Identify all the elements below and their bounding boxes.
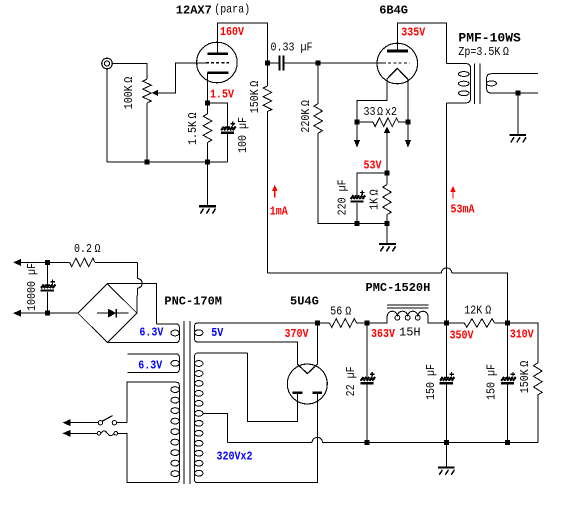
label 363V — [371, 328, 395, 341]
svg-text:320Vx2: 320Vx2 — [217, 451, 253, 464]
svg-text:1.5V: 1.5V — [210, 89, 234, 102]
node pot ground junction — [145, 159, 150, 164]
svg-text:1KΩ: 1KΩ — [369, 189, 382, 210]
svg-text:6B4G: 6B4G — [379, 3, 408, 17]
node rail junction 150uF no1 — [444, 440, 449, 445]
svg-text:(para): (para) — [214, 4, 250, 17]
wire filament left leg — [357, 79, 387, 122]
node filter cap + junction — [45, 260, 50, 265]
label 0.2ohm — [74, 243, 101, 256]
label 12AX7 — [176, 4, 212, 18]
wire 5U4G right plate to HV bottom — [316, 393, 318, 482]
label 1Kohm — [369, 189, 382, 210]
wire 53V to bypass cap — [357, 173, 387, 196]
node coupling cap left — [265, 61, 270, 66]
heater DC + arrow — [13, 259, 47, 266]
heater supply arrow right — [405, 122, 411, 147]
wire 12AX7 plate to coupling node — [217, 23, 267, 63]
label 320Vx2 — [217, 451, 253, 464]
wire HV top to 5U4G plate — [248, 353, 298, 421]
T2 winding 5V — [195, 323, 318, 364]
svg-text:100 µF: 100 µF — [237, 117, 250, 153]
node 350V junction — [444, 321, 449, 326]
resistor R10 150Kohm bleeder — [534, 363, 543, 443]
mains switch SW1 — [98, 416, 116, 425]
resistor R9 12Kohm — [446, 319, 507, 328]
T1 core — [474, 64, 480, 105]
wire OPT primary to 350V node — [446, 103, 448, 323]
label 53mA — [451, 204, 475, 217]
capacitor C4 10000uF — [41, 262, 56, 313]
wire 5U4G filament right to 370V — [316, 323, 318, 364]
T2 core — [184, 321, 190, 484]
wire ground rail with hop — [228, 437, 538, 442]
T1 primary loops — [459, 72, 470, 96]
svg-text:100KΩ: 100KΩ — [123, 76, 136, 109]
node 53V junction — [385, 171, 390, 176]
node cathode net right — [385, 221, 390, 226]
current arrow 53mA — [450, 186, 456, 199]
label 100Kohm — [123, 76, 136, 109]
label 6.3V no1 — [139, 327, 163, 340]
node 363V junction — [365, 321, 370, 326]
T2 winding 6.3V no2 — [127, 354, 179, 373]
label 100uF — [237, 117, 250, 153]
5U4G plate left — [293, 392, 303, 394]
wire filament right leg — [407, 79, 409, 122]
capacitor C7 150uF — [501, 323, 516, 443]
node rail junction 22uF — [365, 440, 370, 445]
svg-text:5U4G: 5U4G — [290, 295, 319, 309]
svg-text:56Ω: 56Ω — [330, 306, 351, 319]
label 6B4G — [379, 3, 408, 17]
fuse F1 — [97, 431, 117, 436]
12AX7 cathode — [208, 71, 229, 73]
HV center tap to ground rail — [203, 413, 228, 442]
T1 secondary — [487, 74, 538, 93]
5U4G plate right — [313, 392, 323, 394]
label 0.33uF — [271, 42, 313, 55]
node filter cap - junction — [45, 311, 50, 316]
label 5V — [211, 327, 223, 340]
hum pot wiper arrow — [384, 127, 390, 173]
label 56ohm — [330, 306, 351, 319]
ground main filter — [438, 443, 455, 475]
svg-text:PMF-10WS: PMF-10WS — [458, 31, 521, 46]
svg-text:350V: 350V — [450, 330, 474, 343]
wire 0.2ohm to bridge + hop — [137, 262, 142, 313]
T2 primary winding — [118, 382, 180, 483]
wire wiper to 12AX7 grid — [158, 63, 206, 93]
label 5U4G — [290, 295, 319, 309]
capacitor C2 0.33uF — [267, 56, 318, 71]
transformer T1 PMF-10WS primary — [447, 64, 471, 103]
T1 secondary loop — [486, 81, 496, 86]
AC input arrow top — [63, 419, 99, 426]
wire amp ground bus — [107, 161, 228, 163]
resistor R2 1.5Kohm — [203, 103, 212, 162]
choke core — [387, 305, 429, 308]
choke L1 PMC-1520H — [367, 311, 446, 323]
svg-text:PMC-1520H: PMC-1520H — [366, 281, 431, 295]
5U4G filament — [298, 364, 318, 373]
label 310V — [510, 329, 534, 342]
svg-text:6.3V: 6.3V — [138, 360, 162, 373]
label Zp=3.5Kohm — [458, 46, 509, 59]
node rail junction 150uF no2 — [505, 440, 510, 445]
node cathode ground junction — [205, 159, 210, 164]
label PMF-10WS — [458, 31, 521, 46]
node grid leak junction — [316, 61, 321, 66]
6B4G plate — [387, 50, 408, 53]
ground OPT secondary — [509, 93, 526, 142]
node 310V junction — [505, 321, 510, 326]
T2 winding 6.3V no1 — [107, 324, 179, 343]
12AX7 plate — [207, 52, 228, 55]
tube U2 6B4G envelope — [377, 43, 418, 84]
label 22uF — [345, 366, 358, 396]
node hum pot right — [406, 120, 411, 125]
node cathode junction — [205, 101, 210, 106]
wire 1mA feed line — [267, 268, 507, 323]
label (para) — [214, 4, 250, 17]
svg-text:220 µF: 220 µF — [337, 179, 350, 215]
resistor R3 150Kohm plate load — [263, 63, 272, 273]
T2 HV winding 320Vx2 — [195, 353, 318, 483]
node secondary ground junction — [515, 91, 520, 96]
svg-text:53V: 53V — [364, 160, 382, 173]
svg-text:12AX7: 12AX7 — [176, 4, 212, 18]
resistor R5 33ohm x2 hum balance — [357, 118, 408, 127]
pot wiper arrow — [152, 90, 158, 96]
wire cathode to bypass cap — [208, 103, 228, 127]
6B4G filament — [387, 68, 408, 79]
wire jack shield to ground bus — [106, 69, 108, 162]
6B4G grid dashed — [383, 62, 410, 64]
svg-text:5V: 5V — [211, 327, 223, 340]
svg-text:22 µF: 22 µF — [345, 366, 358, 396]
tube U3 5U4G envelope — [287, 364, 327, 404]
svg-text:160V: 160V — [220, 26, 244, 39]
resistor R7 0.2ohm — [47, 258, 137, 267]
svg-text:335V: 335V — [401, 27, 425, 40]
svg-text:0.2Ω: 0.2Ω — [74, 243, 101, 256]
label 350V — [450, 330, 474, 343]
node cathode net left — [355, 221, 360, 226]
label 150uF no2 — [486, 364, 499, 400]
wire jack to volume pot top — [113, 64, 147, 80]
svg-text:1.5KΩ: 1.5KΩ — [187, 112, 200, 145]
capacitor C6 150uF — [440, 323, 455, 443]
label 160V — [220, 26, 244, 39]
wire switch to primary — [117, 422, 127, 424]
resistor R4 220Kohm grid leak — [314, 63, 387, 223]
svg-text:370V: 370V — [285, 328, 309, 341]
resistor R6 1Kohm — [383, 173, 392, 223]
current arrow 1mA — [272, 185, 278, 198]
svg-text:0.33 µF: 0.33 µF — [271, 42, 313, 55]
volume pot R1 100Kohm — [143, 79, 152, 162]
svg-text:363V: 363V — [371, 328, 395, 341]
wire to 6B4G grid — [318, 62, 383, 64]
node 370V junction — [315, 321, 320, 326]
svg-text:1mA: 1mA — [270, 206, 288, 219]
svg-text:310V: 310V — [510, 329, 534, 342]
label 1.5V — [210, 89, 234, 102]
capacitor C1 100uF — [221, 122, 236, 162]
label 1.5Kohm — [187, 112, 200, 145]
label 370V — [285, 328, 309, 341]
label 150Kohm — [249, 80, 262, 113]
AC input arrow bottom — [63, 430, 98, 437]
svg-text:53mA: 53mA — [451, 204, 475, 217]
label 220Kohm — [300, 100, 313, 133]
label 53V — [364, 160, 382, 173]
svg-text:33Ω x2: 33Ω x2 — [364, 106, 397, 119]
ground amp — [199, 162, 216, 214]
svg-text:PNC-170M: PNC-170M — [164, 295, 222, 309]
svg-text:6.3V: 6.3V — [139, 327, 163, 340]
label PMC-1520H — [366, 281, 431, 295]
ground 6B4G cathode — [379, 223, 396, 251]
wire 6B4G plate to OPT — [397, 23, 446, 64]
12AX7 grid dashed — [206, 62, 229, 64]
wire 12AX7 cathode lead — [207, 73, 209, 103]
node hum pot left — [355, 120, 360, 125]
wire bridge AC top to 6.3V winding — [107, 284, 156, 324]
svg-text:150 µF: 150 µF — [486, 364, 499, 400]
label 150uF no1 — [425, 364, 438, 400]
svg-text:150 µF: 150 µF — [425, 364, 438, 400]
label 1mA — [270, 206, 288, 219]
label 6.3V no2 — [138, 360, 162, 373]
heater DC - arrow — [13, 310, 78, 317]
label 10000uF — [26, 263, 39, 311]
wire 310V to bleeder — [508, 323, 538, 363]
resistor R8 56ohm — [317, 319, 367, 328]
svg-text:15H: 15H — [399, 326, 421, 340]
svg-text:220KΩ: 220KΩ — [300, 100, 313, 133]
label PNC-170M — [164, 295, 222, 309]
label 220uF — [337, 179, 350, 215]
label 335V — [401, 27, 425, 40]
capacitor C3 220uF — [350, 190, 365, 223]
input jack J1 — [102, 58, 113, 69]
heater supply arrow left — [354, 122, 360, 147]
svg-text:150KΩ: 150KΩ — [249, 80, 262, 113]
label 33ohm x2 — [364, 106, 397, 119]
tube U1 12AX7 envelope — [197, 42, 238, 83]
bridge rectifier D1 — [78, 284, 137, 343]
svg-text:150KΩ: 150KΩ — [519, 360, 532, 393]
label 15H — [399, 326, 421, 340]
capacitor C5 22uF — [360, 323, 375, 443]
svg-text:12KΩ: 12KΩ — [464, 305, 491, 318]
label 12Kohm — [464, 305, 491, 318]
svg-text:10000 µF: 10000 µF — [26, 263, 39, 311]
label 150Kohm bleeder — [519, 360, 532, 393]
